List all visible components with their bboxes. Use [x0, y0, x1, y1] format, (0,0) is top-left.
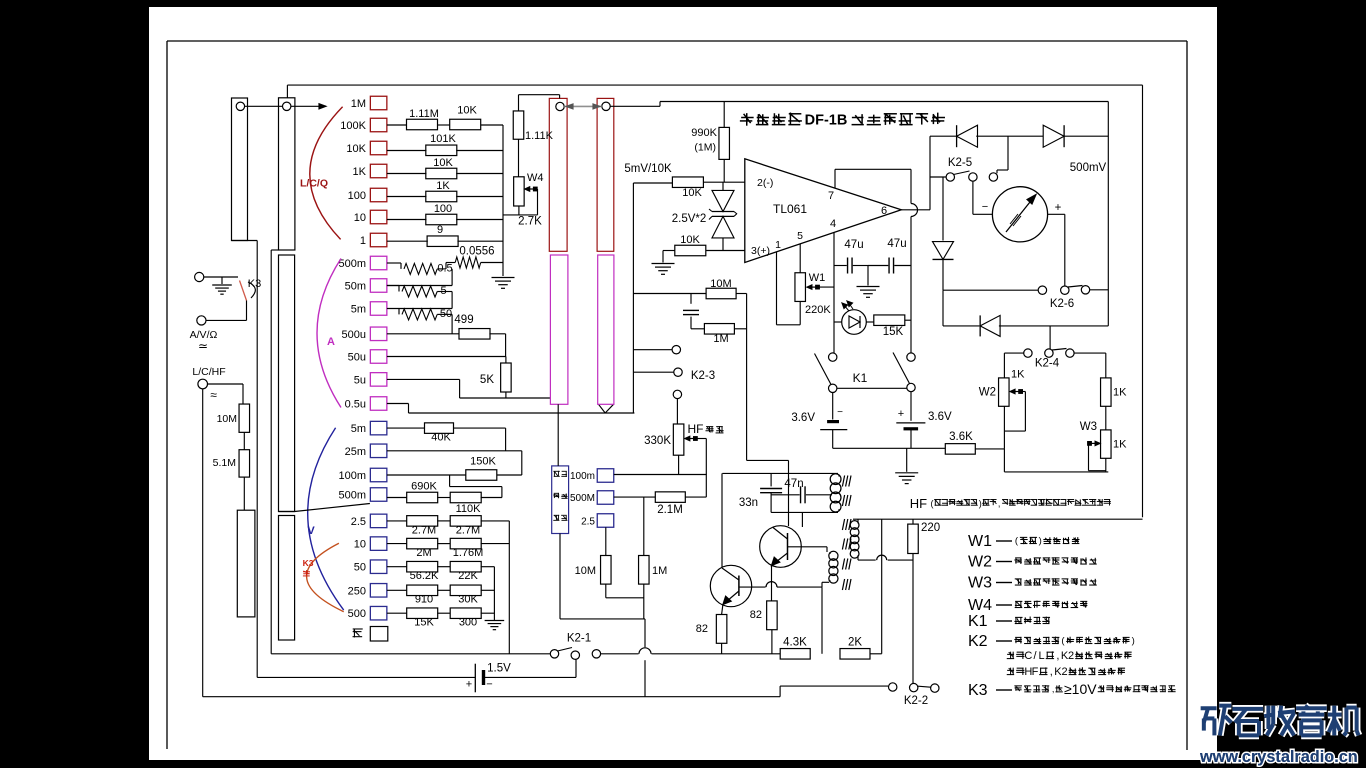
svg-text:+: +: [898, 408, 904, 420]
svg-text:K1: K1: [853, 371, 868, 385]
wire meter plus: [1048, 213, 1065, 215]
wire: [505, 357, 507, 364]
resistor 82 (Q2 emitter): [767, 601, 778, 630]
wire from S1b bottom: [271, 249, 278, 251]
switch K2-6 contact 2: [1061, 286, 1069, 294]
wire: [387, 240, 428, 242]
svg-text:82: 82: [750, 609, 762, 621]
svg-text:15K: 15K: [883, 326, 904, 338]
ground (calibration bus): [492, 277, 515, 279]
switch K3 lever (red): [240, 281, 247, 301]
contact square 500u (A range): [370, 327, 387, 341]
wire 500m row: [387, 497, 407, 499]
resistor 2.7M (second): [450, 516, 481, 527]
svg-text:−: −: [837, 407, 843, 418]
switch K2-2 contact 1: [889, 683, 897, 691]
svg-text:2K: 2K: [848, 637, 862, 649]
wire: [690, 317, 692, 329]
wire: [633, 371, 673, 373]
svg-text:5m: 5m: [351, 304, 366, 316]
contact square 10K (L/C/Q range): [370, 141, 387, 155]
switch K2-2 contact 2: [910, 683, 918, 691]
resistor 1M (HF divider): [639, 556, 650, 585]
svg-text:W3: W3: [968, 575, 992, 592]
wire 5u row: [387, 378, 460, 380]
resistor 10K (top): [450, 119, 481, 130]
svg-text:(1M): (1M): [694, 142, 716, 154]
contact circle S2a: [556, 102, 564, 110]
wire Q1 base: [739, 586, 766, 588]
W2 wiper: [1014, 391, 1020, 393]
watermark 矿石收音机: [1201, 704, 1217, 712]
svg-text:K2: K2: [968, 633, 988, 650]
HF contact square 2.5: [597, 514, 614, 528]
svg-text:150K: 150K: [470, 456, 496, 468]
switch K1 pole B top contact: [907, 353, 915, 361]
wire: [930, 176, 946, 178]
resistor 1K (right): [1101, 378, 1112, 406]
contact square 10 (L/C/Q range): [370, 210, 387, 224]
wire: [481, 497, 502, 499]
wire with arrow to 1M row: [323, 105, 326, 107]
wire Q2 base: [788, 546, 828, 548]
HF input box 高频交流包络: [552, 466, 569, 534]
capacitor (feedback): [683, 309, 699, 311]
svg-text:,: ,: [998, 499, 1001, 509]
svg-text:2.7M: 2.7M: [456, 525, 480, 537]
wire: [912, 519, 914, 524]
wire 500 row: [387, 612, 407, 614]
svg-text:3.6V: 3.6V: [928, 411, 952, 423]
switch K2-1 contact 2: [571, 651, 579, 659]
resistor 5 (zigzag): [398, 286, 400, 292]
wire W4 bottom: [518, 206, 520, 215]
wire: [706, 250, 745, 252]
svg-text:≥10V: ≥10V: [1064, 681, 1097, 697]
svg-text:47u: 47u: [844, 239, 863, 251]
svg-text:): ): [1132, 636, 1135, 647]
contact square 500m (V range): [370, 488, 387, 502]
svg-text:6: 6: [881, 205, 887, 217]
capacitor 47n: [771, 494, 800, 496]
jack common (top circle): [195, 272, 204, 281]
wire: [437, 520, 451, 522]
potentiometer W4: [514, 177, 525, 206]
ground (ohm divider): [485, 620, 505, 622]
switch K2-6 contact 3: [1081, 286, 1089, 294]
wire: [1064, 135, 1108, 137]
svg-text:W3: W3: [1080, 421, 1097, 433]
zener pair 2.5V*2: [722, 182, 724, 190]
wire: [1105, 458, 1107, 472]
wire: [481, 566, 495, 568]
switch K2-4 contact 2: [1045, 349, 1053, 357]
resistor 22K: [450, 561, 481, 572]
svg-text:2.7M: 2.7M: [412, 525, 436, 537]
wire: [676, 399, 678, 424]
svg-text:10K: 10K: [680, 234, 700, 246]
switch wafer box S1b segment 2: [279, 255, 295, 512]
wire to ground: [906, 448, 908, 472]
resistor 220: [908, 524, 919, 553]
svg-text:500u: 500u: [342, 329, 366, 341]
wire: [704, 181, 745, 183]
resistor 10M (feedback): [706, 288, 736, 299]
feedback network: wire from input bus: [633, 293, 706, 295]
svg-text:5.1M: 5.1M: [213, 457, 236, 469]
resistor 10M (HF divider): [601, 556, 612, 585]
resistor 499: [459, 329, 490, 340]
svg-text:10K: 10K: [346, 143, 366, 155]
ground (common jack): [221, 277, 223, 284]
contact square 50u (A range): [370, 350, 387, 364]
wire: [736, 293, 747, 295]
svg-text:0.5u: 0.5u: [345, 399, 366, 411]
wire: [723, 102, 725, 128]
resistor 50 (zigzag): [398, 309, 400, 315]
switch K2-2 contact 3: [931, 684, 939, 692]
svg-text:−: −: [486, 679, 492, 691]
svg-text:+: +: [1055, 202, 1062, 214]
contact square 0.5u (A range): [370, 397, 387, 411]
svg-text:2.5V*2: 2.5V*2: [672, 213, 707, 225]
svg-text:300: 300: [459, 617, 477, 629]
pin7 supply wire: [834, 169, 836, 188]
wire node to 4.3K/2K junction: [821, 587, 823, 654]
resistor 2M: [407, 538, 438, 549]
inner page frame: [167, 40, 1187, 42]
wire: [489, 333, 505, 335]
svg-text:15K: 15K: [414, 617, 434, 629]
resistor 10K: [426, 168, 457, 179]
wire 50u row: [387, 356, 506, 358]
svg-text:DF-1B: DF-1B: [805, 113, 848, 129]
svg-text:TL061: TL061: [773, 202, 807, 216]
wire wafer to HF box: [557, 404, 559, 466]
svg-text:990K: 990K: [691, 127, 717, 139]
wire: [1004, 430, 1025, 432]
range arc K3 linkage: [307, 543, 344, 611]
svg-text:47u: 47u: [887, 238, 906, 250]
resistor 10K (inverting input): [672, 177, 703, 188]
diode D3 (down): [942, 177, 944, 241]
taper of wafer to bus: [599, 404, 606, 413]
svg-text:5m: 5m: [351, 423, 366, 435]
switch K2-1 contact 3: [592, 650, 600, 658]
svg-text:W1: W1: [809, 272, 826, 284]
svg-text:HF: HF: [910, 496, 927, 511]
resistor 2.7M (first): [407, 516, 438, 527]
potentiometer W2: [999, 378, 1010, 406]
svg-text:1.11M: 1.11M: [409, 108, 439, 120]
wire: [481, 124, 503, 126]
wire: [788, 473, 790, 526]
svg-text:5: 5: [797, 230, 803, 242]
switch wafer box S2a (L/C/Q): [549, 98, 567, 251]
resistor 5K (vertical): [501, 363, 512, 392]
switch wafer box S1a: [232, 98, 248, 241]
contact square 2.5 (V range): [370, 514, 387, 528]
svg-text:100K: 100K: [340, 120, 366, 132]
svg-text:L/C/Q: L/C/Q: [300, 178, 328, 190]
resistor 0.5 (zigzag): [404, 263, 437, 274]
svg-text:10: 10: [354, 539, 366, 551]
svg-text:K2-4: K2-4: [1035, 358, 1060, 370]
wire S2a top to 1.11K: [559, 95, 561, 99]
outer top border wire: [287, 84, 1142, 86]
resistor 9: [427, 236, 458, 247]
resistor 10M (input divider): [239, 404, 250, 432]
wire: [481, 262, 503, 264]
svg-text:10M: 10M: [710, 278, 731, 290]
wire step: [449, 475, 451, 487]
supply rail down right (with hop over output): [910, 169, 912, 203]
svg-text:3.6K: 3.6K: [949, 431, 973, 443]
op-amp output wire: [901, 209, 930, 211]
switch K2-6 contact 1: [1038, 286, 1046, 294]
svg-text:1.76M: 1.76M: [453, 547, 484, 559]
svg-text:500mV: 500mV: [1070, 162, 1107, 174]
svg-text:3(+): 3(+): [751, 245, 770, 257]
wire 25m row: [387, 450, 522, 452]
wire: [633, 182, 672, 184]
wire: [1105, 406, 1107, 430]
svg-text:K2-3: K2-3: [691, 370, 715, 382]
svg-text:K2-5: K2-5: [948, 157, 972, 169]
svg-text:1K: 1K: [436, 180, 450, 192]
svg-text:V: V: [307, 525, 315, 537]
wire K2-1 row: [271, 653, 550, 655]
svg-text:33n: 33n: [739, 497, 758, 509]
wire: [870, 653, 882, 655]
svg-text:9: 9: [437, 224, 443, 236]
feedback to oscillator: [747, 459, 789, 461]
wire Q2 emitter: [771, 566, 773, 601]
wire: [387, 285, 399, 287]
title 改造后的DF-1B繁用表电路图: [740, 120, 752, 122]
supply vertical right: [1107, 102, 1109, 326]
svg-text:W1: W1: [968, 533, 992, 550]
wire cap branch: [690, 294, 692, 304]
wire 5m row: [387, 427, 425, 429]
svg-text:−: −: [982, 201, 988, 213]
bus wire to calibration network: [502, 125, 504, 276]
wire: [771, 630, 773, 654]
wire 250 row: [387, 589, 407, 591]
resistor 1K: [426, 191, 457, 202]
svg-text:K2-1: K2-1: [567, 633, 591, 645]
svg-text:W4: W4: [968, 597, 992, 614]
wire: [387, 173, 427, 175]
svg-text:W4: W4: [527, 172, 544, 184]
svg-text:50u: 50u: [348, 352, 366, 364]
contact square 100K (L/C/Q range): [370, 118, 387, 132]
K2-6 lever: [1068, 286, 1083, 288]
wire D4 row: [942, 290, 944, 326]
svg-text:500M: 500M: [570, 493, 595, 504]
feedback branch vertical: [746, 294, 748, 461]
switch K1 pole B bottom contact: [907, 383, 915, 391]
battery 1.5V: [257, 676, 475, 678]
svg-text:82: 82: [696, 623, 708, 635]
switch K2-3 contact 3: [673, 390, 681, 398]
hop W2 bottom wire: [857, 557, 859, 560]
resistor 910: [407, 585, 438, 596]
svg-text:22K: 22K: [458, 570, 478, 582]
wire: [243, 477, 245, 510]
svg-text:499: 499: [454, 314, 473, 326]
wire to ground: [663, 250, 675, 252]
wire: [437, 313, 452, 315]
resistor 690K: [407, 492, 438, 503]
svg-text:A: A: [327, 336, 335, 348]
svg-text:): ): [979, 499, 982, 509]
capacitor 47u (first): [834, 265, 847, 267]
svg-text:2: 2: [1068, 650, 1074, 662]
battery 3.6V (left): [832, 393, 834, 420]
svg-text:220K: 220K: [805, 304, 831, 316]
wire 100m row to 330K: [634, 474, 706, 476]
contact square 1M (L/C/Q range): [370, 96, 387, 110]
svg-text:1K: 1K: [1113, 439, 1127, 451]
svg-text:W2: W2: [979, 387, 996, 399]
svg-text:47n: 47n: [784, 478, 803, 490]
wire: [437, 543, 451, 545]
svg-text:1.5V: 1.5V: [487, 663, 511, 675]
wire: [387, 219, 427, 221]
bus step up: [779, 686, 781, 697]
range arc A: [317, 259, 341, 408]
resistor 15K: [407, 608, 438, 619]
K1 lever A: [815, 354, 832, 385]
resistor 1.76M: [450, 538, 481, 549]
svg-text:500: 500: [348, 608, 366, 620]
switch K2-3 contact 1: [672, 346, 680, 354]
transistor Q2: [760, 526, 802, 568]
wire: [437, 497, 451, 499]
wire: [481, 543, 510, 545]
contact square 500m (A range): [370, 256, 387, 270]
wire: [246, 301, 248, 321]
resistor 10K (non-inverting input): [675, 245, 706, 256]
svg-text:1K: 1K: [1011, 369, 1025, 381]
svg-text:1K: 1K: [1113, 387, 1127, 399]
330K wiper: [688, 438, 694, 440]
svg-text:50: 50: [354, 562, 366, 574]
legend line 测量C/L时，K2应在交流位置: [1007, 653, 1014, 655]
contact square 5m (A range): [370, 302, 387, 316]
resistor 110K: [450, 492, 481, 503]
resistor 1.11M: [407, 119, 438, 130]
wire: [721, 643, 723, 654]
wire between contacts: [245, 105, 283, 107]
resistor 101K: [426, 145, 457, 156]
svg-text:2: 2: [1061, 666, 1067, 678]
gray link wire with arrows: [564, 105, 602, 107]
resistor 56.2K: [407, 561, 438, 572]
jack A/V/Ω: [197, 316, 206, 325]
contact circle on S1a: [236, 102, 244, 110]
wire: [481, 520, 510, 522]
svg-text:250: 250: [348, 585, 366, 597]
wire: [975, 448, 1004, 450]
wire: [905, 319, 911, 321]
wire 0.5u row: [387, 403, 409, 405]
transistor Q1: [710, 565, 751, 606]
resistor 2K: [840, 649, 870, 660]
contact square 100m (V range): [370, 468, 387, 482]
wire from K2-1 contact 3: [601, 653, 639, 655]
meter M (galvanometer): [992, 187, 1047, 242]
capacitor 47u (second): [868, 265, 888, 267]
wire: [437, 566, 451, 568]
K2-2 link: [918, 686, 931, 687]
wire: [387, 124, 407, 126]
outer right border wire: [1142, 85, 1144, 517]
svg-text:2M: 2M: [416, 547, 431, 559]
potentiometer W1: [795, 273, 806, 302]
contact square 1 (L/C/Q range): [370, 233, 387, 247]
capacitor 33n: [770, 473, 772, 486]
W4 wiper: [528, 188, 534, 190]
contact square 1K (L/C/Q range): [370, 164, 387, 178]
svg-text:101K: 101K: [430, 133, 456, 145]
resistor 300: [450, 608, 481, 619]
svg-text:56.2K: 56.2K: [410, 570, 439, 582]
svg-text:K2-6: K2-6: [1050, 298, 1074, 310]
svg-text:HF: HF: [688, 422, 704, 436]
wire Q1 collector: [721, 473, 723, 567]
switch wafer box S1b: [279, 98, 295, 250]
wire: [1090, 289, 1109, 291]
svg-text:1M: 1M: [652, 565, 667, 577]
svg-text:(: (: [931, 499, 934, 509]
wire K2-4 right: [1074, 352, 1106, 354]
svg-text:7: 7: [828, 190, 834, 202]
diode D4: [980, 315, 1000, 336]
svg-text:≃: ≃: [198, 339, 208, 353]
contact square 500 (V range): [370, 606, 387, 620]
svg-text:,: ,: [1050, 666, 1053, 678]
contact square 100 (L/C/Q range): [370, 188, 387, 202]
wire: [437, 268, 446, 270]
wire S2b top-right to op-amp supply rail: [610, 105, 660, 107]
wire: [614, 474, 634, 476]
svg-text:L: L: [1039, 650, 1045, 662]
K1 lever B: [893, 353, 910, 384]
contact square 拔: [370, 627, 388, 642]
svg-text:K2-2: K2-2: [904, 695, 928, 707]
input bus wire: [632, 183, 634, 413]
svg-text:500m: 500m: [338, 258, 366, 270]
wire secondary top / HF output: [857, 519, 859, 521]
svg-text:1.11K: 1.11K: [525, 130, 554, 142]
K2-4 lever: [1052, 349, 1067, 351]
svg-text:10K: 10K: [457, 105, 477, 117]
svg-text:10: 10: [354, 212, 366, 224]
switch wafer box S4 (lower): [237, 510, 255, 617]
contact square 5u (A range): [370, 373, 387, 387]
wire: [387, 262, 401, 264]
svg-text:1M: 1M: [351, 98, 366, 110]
op-amp U1 TL061: [745, 159, 902, 263]
svg-text:+: +: [466, 679, 472, 691]
svg-text:≈: ≈: [210, 388, 217, 402]
svg-text:2.5: 2.5: [351, 516, 366, 528]
wire: [999, 325, 1108, 327]
svg-text:www.crystalradio.cn: www.crystalradio.cn: [1199, 748, 1358, 766]
resistor 4.3K: [780, 649, 810, 660]
